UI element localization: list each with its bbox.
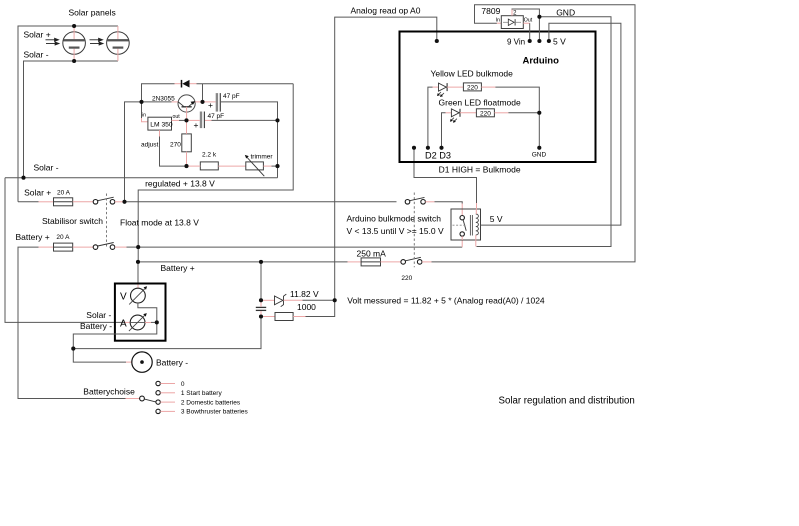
node D2 pin bbox=[426, 146, 430, 150]
svg-text:Stabilisor switch: Stabilisor switch bbox=[42, 216, 103, 226]
wire base row bbox=[142, 101, 172, 103]
node D1 pin bbox=[412, 146, 416, 150]
solar panel G1 bbox=[63, 26, 86, 61]
svg-text:Arduino: Arduino bbox=[523, 56, 560, 67]
wire relay coil bottom to gnd bbox=[475, 235, 477, 247]
rotary contact 3 bbox=[156, 409, 160, 413]
wire adjust bbox=[160, 137, 187, 167]
svg-text:A: A bbox=[120, 319, 127, 330]
node C2 right junction bbox=[275, 118, 279, 122]
wire zener anode stub bbox=[261, 299, 275, 301]
wire batterychoise red stub bbox=[126, 398, 140, 400]
wire battery fuse left stub bbox=[39, 246, 54, 248]
wire collector/diode top row bbox=[142, 84, 175, 102]
resistor R6 220 bbox=[476, 109, 494, 117]
trimmer R3 bbox=[245, 155, 264, 176]
wire diode anode stub bbox=[175, 83, 182, 85]
wire diode cathode stub bbox=[190, 83, 197, 85]
wire coil drive red stub bbox=[476, 203, 478, 209]
wire 220 green to gnd leg bbox=[494, 112, 508, 114]
wire C2 right bbox=[205, 119, 212, 121]
wire GND rail to relay coil bbox=[477, 17, 612, 247]
wire fuse to switch bbox=[73, 201, 93, 203]
wire 12V supply loop to 7809 bbox=[422, 261, 432, 263]
capacitor C3 bbox=[256, 300, 266, 316]
svg-text:2 Domestic batteries: 2 Domestic batteries bbox=[181, 399, 241, 406]
IC U2 7809 bbox=[501, 16, 523, 29]
svg-text:Solar regulation and distribut: Solar regulation and distribution bbox=[499, 396, 635, 407]
wire trimmer right stub bbox=[263, 165, 271, 167]
wire battery+ rail bbox=[138, 261, 348, 263]
wire 250mA fuse left stub bbox=[348, 261, 362, 263]
voltmeter V bbox=[129, 286, 147, 304]
wire A to junction bbox=[151, 321, 157, 323]
solar panel G2 bbox=[107, 26, 130, 61]
node solar- rail junction bbox=[21, 176, 25, 180]
svg-text:+: + bbox=[194, 120, 199, 130]
svg-text:Solar -: Solar - bbox=[86, 310, 111, 320]
wire LM350 in drop bbox=[141, 102, 143, 118]
svg-text:Float mode at 13.8 V: Float mode at 13.8 V bbox=[120, 218, 199, 228]
wire sense to battery- net bbox=[73, 317, 261, 349]
wire out red stub bbox=[172, 119, 180, 121]
meter box bbox=[115, 284, 166, 341]
wire LED to 220 bbox=[447, 86, 463, 88]
capacitor C2 47pF bbox=[200, 112, 205, 129]
svg-text:out: out bbox=[173, 114, 181, 120]
node trimmer junction bbox=[275, 164, 279, 168]
svg-text:1000: 1000 bbox=[297, 302, 316, 312]
node A0 sense junction bbox=[333, 298, 337, 302]
resistor R5 220 bbox=[463, 83, 481, 91]
svg-text:Battery -: Battery - bbox=[156, 358, 188, 368]
wire C2 left red stub bbox=[187, 119, 200, 121]
svg-text:Solar -: Solar - bbox=[34, 163, 59, 173]
node out junction bbox=[184, 118, 188, 122]
svg-text:20 A: 20 A bbox=[57, 190, 71, 197]
svg-text:+: + bbox=[208, 100, 213, 110]
diode D1 regulator bbox=[182, 80, 190, 88]
LED D4 green bbox=[450, 109, 460, 123]
wire R2 left stub bbox=[187, 165, 201, 167]
svg-text:regulated + 13.8 V: regulated + 13.8 V bbox=[145, 179, 215, 189]
wire V to A link bbox=[138, 303, 157, 322]
svg-text:0: 0 bbox=[181, 381, 185, 388]
wire switch right red stub bbox=[115, 201, 127, 203]
resistor R2 2.2k bbox=[200, 162, 218, 170]
wire battery+ left leg to batterychoise bbox=[18, 247, 126, 398]
relay K1 bbox=[451, 209, 481, 240]
wire base red stub bbox=[172, 101, 179, 103]
switch S3 bulkmode bbox=[405, 197, 425, 204]
wire A0 sense to arduino bbox=[335, 17, 437, 300]
node D3 pin bbox=[439, 146, 443, 150]
wire relay coil top stub bbox=[475, 209, 477, 214]
svg-text:Batterychoise: Batterychoise bbox=[83, 387, 135, 397]
wire 7809 out to 9Vin pin bbox=[523, 22, 529, 24]
svg-text:11.82 V: 11.82 V bbox=[290, 289, 319, 299]
wire collector red stub bbox=[195, 101, 216, 103]
wire battery- to terminal bbox=[73, 349, 126, 363]
svg-text:D1 HIGH = Bulkmode: D1 HIGH = Bulkmode bbox=[439, 165, 521, 175]
wire regulated +13.8V feed bbox=[138, 84, 293, 262]
node zener tap bbox=[259, 298, 263, 302]
svg-text:220: 220 bbox=[480, 111, 491, 118]
pin 2 stub 7809 bbox=[511, 10, 513, 16]
wire switch to rail bbox=[115, 246, 127, 248]
wire adjust red stub bbox=[159, 130, 161, 136]
wire relay contact top stub bbox=[461, 204, 463, 216]
IC U1 LM 350 bbox=[148, 117, 172, 130]
node solar+ top junction bbox=[72, 24, 76, 28]
svg-text:Battery +: Battery + bbox=[161, 263, 195, 273]
svg-text:Arduino bulkmode switch: Arduino bulkmode switch bbox=[347, 213, 442, 223]
wire bulkmode switch right bbox=[425, 201, 434, 203]
light arrows into panel G2 bbox=[90, 38, 104, 45]
svg-text:9 Vin: 9 Vin bbox=[507, 38, 525, 47]
wire D2 to yellow LED bbox=[428, 87, 433, 148]
transistor Q1 2N3055 bbox=[178, 95, 195, 121]
battery- terminal bbox=[132, 352, 152, 372]
wire C1 right to corner bbox=[221, 102, 278, 178]
wire collector drop bbox=[202, 84, 204, 102]
rotary contact 2 bbox=[156, 400, 160, 404]
svg-text:Volt messured = 11.82 + 5 * (A: Volt messured = 11.82 + 5 * (Analog read… bbox=[347, 296, 545, 306]
ammeter A bbox=[124, 313, 151, 331]
resistor R1 270 bbox=[182, 134, 192, 152]
node solar- bottom junction bbox=[72, 59, 76, 63]
node meter junction bbox=[155, 320, 159, 324]
rotary contact 1 bbox=[156, 391, 160, 395]
node regulated/battery+ junction bbox=[136, 245, 140, 249]
wire solar- rail and left leg bbox=[24, 61, 118, 178]
svg-text:7809: 7809 bbox=[481, 6, 500, 16]
wire D1 bulkmode drive bbox=[414, 148, 477, 203]
node arduino GND pin bbox=[537, 146, 541, 150]
fuse F3 250mA bbox=[361, 258, 380, 266]
svg-text:Yellow LED bulkmode: Yellow LED bulkmode bbox=[431, 69, 514, 79]
node 9Vin pin bbox=[528, 39, 532, 43]
wire 220 to gnd leg bbox=[481, 86, 495, 88]
wire fuse to switch bbox=[73, 246, 93, 248]
svg-text:in: in bbox=[142, 112, 146, 118]
wire led gnd leg bbox=[538, 113, 540, 148]
svg-text:adjust: adjust bbox=[141, 142, 159, 149]
node battery- junction bbox=[71, 347, 75, 351]
wire out to junction bbox=[179, 119, 187, 121]
svg-text:5 V: 5 V bbox=[490, 214, 503, 224]
switch S1 stabilisor (solar) bbox=[93, 197, 115, 204]
wire in red stub bbox=[142, 118, 148, 122]
fuse F2 20A bbox=[54, 243, 73, 251]
node collector junction bbox=[200, 100, 204, 104]
wire base node to solar+ node bbox=[125, 102, 142, 202]
svg-text:V < 13.5 until V >= 15.0 V: V < 13.5 until V >= 15.0 V bbox=[347, 226, 444, 236]
svg-text:250 mA: 250 mA bbox=[357, 249, 387, 259]
node solar+ base tap bbox=[122, 200, 126, 204]
wire 1000 left stub bbox=[261, 316, 275, 318]
svg-text:V: V bbox=[120, 291, 127, 302]
node adjust junction bbox=[184, 164, 188, 168]
svg-text:3 Bowthruster batteries: 3 Bowthruster batteries bbox=[181, 409, 249, 416]
wire fuse to switch S4 bbox=[381, 261, 401, 263]
svg-text:Battery +: Battery + bbox=[16, 232, 50, 242]
wire top row to regulated corner bbox=[197, 83, 294, 85]
mechanical link stabilisor switch bbox=[106, 194, 108, 249]
svg-text:220: 220 bbox=[467, 85, 478, 92]
wire terminal red stub bbox=[126, 361, 132, 363]
node 5V pin bbox=[547, 39, 551, 43]
LED D3 yellow bbox=[437, 83, 447, 97]
wire 7809 gnd pin to rail bbox=[512, 9, 539, 17]
svg-text:Green LED floatmode: Green LED floatmode bbox=[439, 97, 521, 107]
mechanical link bulkmode switch bbox=[413, 193, 415, 268]
wire solar+ top rail and left leg bbox=[18, 26, 118, 202]
svg-text:2.2 k: 2.2 k bbox=[202, 152, 217, 159]
svg-text:220: 220 bbox=[401, 275, 412, 282]
capacitor C1 47pF bbox=[216, 93, 221, 112]
svg-text:5 V: 5 V bbox=[553, 37, 566, 47]
resistor R4 1000 bbox=[275, 313, 293, 321]
switch S4 arduino 250mA bbox=[401, 257, 422, 264]
wire regulated down to battery+ rail bbox=[137, 262, 139, 284]
wire 1000 right to A0 node bbox=[293, 316, 305, 318]
wire relay contact bottom stub bbox=[461, 236, 463, 240]
wire D3 to green LED bbox=[442, 113, 446, 148]
rotary contact 0 bbox=[156, 381, 160, 385]
svg-text:2N3055: 2N3055 bbox=[152, 96, 175, 103]
wire relay contact riser bbox=[461, 240, 463, 247]
rotary lever bbox=[144, 399, 155, 402]
node base junction bbox=[139, 100, 143, 104]
node sense top bbox=[259, 260, 263, 264]
wire 5V pin loop to relay bbox=[481, 23, 621, 225]
svg-text:Analog read op A0: Analog read op A0 bbox=[351, 6, 421, 16]
zener D2 11.82V bbox=[275, 294, 287, 307]
svg-text:Solar +: Solar + bbox=[24, 30, 51, 40]
svg-text:Solar +: Solar + bbox=[24, 188, 51, 198]
svg-text:47 pF: 47 pF bbox=[223, 93, 240, 100]
svg-text:trimmer: trimmer bbox=[251, 154, 274, 161]
node gnd rail junction bbox=[537, 15, 541, 19]
wire LED to 220 green bbox=[460, 112, 476, 114]
wire zener cathode bbox=[284, 299, 303, 301]
svg-text:270: 270 bbox=[170, 142, 181, 149]
svg-text:1 Start battery: 1 Start battery bbox=[181, 390, 223, 397]
wire R1 bottom stub bbox=[186, 152, 188, 166]
svg-text:LM 350: LM 350 bbox=[150, 122, 173, 129]
wire solar- down to ammeter bbox=[5, 178, 124, 323]
svg-text:D2 D3: D2 D3 bbox=[425, 150, 451, 160]
Arduino box bbox=[400, 32, 596, 163]
fuse F1 20A bbox=[54, 198, 73, 206]
light arrows into panel G1 bbox=[46, 38, 60, 45]
wire gnd pin drop bbox=[538, 17, 540, 41]
wire meter loop to battery- bbox=[73, 322, 157, 348]
node battery+ rail left bbox=[136, 260, 140, 264]
svg-text:Solar -: Solar - bbox=[24, 50, 49, 60]
svg-text:In: In bbox=[496, 18, 500, 24]
svg-text:GND: GND bbox=[532, 152, 547, 159]
wire battery+ row to relay contact bbox=[138, 246, 462, 248]
rotary switch S5 pole bbox=[140, 396, 145, 401]
wire solar- ground rail bbox=[5, 177, 278, 179]
node resistor tap bbox=[259, 314, 263, 318]
wire R1 top stub bbox=[186, 120, 188, 133]
node gnd pin bbox=[537, 39, 541, 43]
switch S2 stabilisor (battery) bbox=[93, 243, 115, 250]
wire 7809 in red stub bbox=[497, 22, 501, 24]
node led gnd junction bbox=[537, 111, 541, 115]
svg-text:Battery -: Battery - bbox=[80, 321, 112, 331]
wire V meter red stub bbox=[137, 284, 139, 288]
wire battery+ sense drop bbox=[260, 262, 262, 300]
svg-text:47 pF: 47 pF bbox=[208, 113, 225, 120]
wire solar+ row left bbox=[18, 201, 39, 203]
wire R2 to trimmer bbox=[218, 165, 246, 167]
wire solar+ row to bulkmode switch bbox=[127, 201, 397, 203]
svg-text:Solar panels: Solar panels bbox=[69, 8, 116, 18]
svg-text:GND: GND bbox=[556, 7, 575, 17]
node A0 pin bbox=[435, 39, 439, 43]
svg-text:20 A: 20 A bbox=[56, 234, 70, 241]
